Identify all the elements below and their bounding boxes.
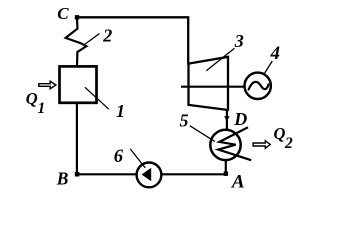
- wire: condenser outlet to node A: [225, 161, 227, 174]
- generator sine wave: [249, 82, 269, 90]
- svg-text:6: 6: [114, 147, 124, 167]
- pump 6 circle: [137, 163, 162, 188]
- wire: left pipe box to node B: [76, 103, 78, 174]
- throttle valve 2 zigzag: [66, 17, 87, 66]
- svg-text:1: 1: [116, 101, 125, 121]
- node A junction dot: [224, 172, 228, 176]
- node B junction dot: [75, 172, 80, 177]
- svg-text:3: 3: [234, 31, 244, 51]
- svg-text:Q: Q: [26, 89, 38, 108]
- svg-text:A: A: [231, 172, 245, 193]
- wire: right vertical pipe down to turbine inlet: [187, 16, 189, 64]
- svg-text:5: 5: [180, 111, 189, 131]
- leader line to label 2: [84, 34, 100, 45]
- turbine 3 trapezoid: [189, 57, 229, 110]
- condenser zigzag coil: [218, 127, 251, 160]
- leader line to label 6: [130, 149, 145, 168]
- svg-text:4: 4: [270, 43, 281, 64]
- leader line to label 3: [206, 48, 234, 71]
- condenser 5 circle: [210, 130, 240, 160]
- generator 4 circle: [245, 73, 271, 99]
- svg-text:B: B: [56, 169, 69, 189]
- flow arrowhead at D: [224, 116, 230, 121]
- leader line to label 4: [264, 61, 272, 74]
- pump triangle rotor: [142, 168, 152, 181]
- svg-text:2: 2: [284, 135, 293, 152]
- turbine-generator shaft: [181, 86, 244, 88]
- leader line to label 1: [85, 87, 109, 109]
- svg-text:D: D: [233, 109, 247, 129]
- svg-text:C: C: [57, 4, 69, 23]
- heat input block arrow Q1: [39, 81, 56, 89]
- heater box 1: [60, 66, 97, 102]
- wire: top line C to right corner: [77, 16, 188, 18]
- wire: turbine outlet pipe down to condenser: [226, 110, 228, 129]
- leader line to label 5: [190, 126, 215, 142]
- svg-text:Q: Q: [274, 124, 286, 143]
- wire: bottom line B to A: [77, 173, 226, 175]
- svg-text:2: 2: [102, 25, 112, 45]
- svg-text:1: 1: [38, 100, 46, 117]
- heat output block arrow Q2: [253, 141, 270, 149]
- node C junction dot: [75, 15, 79, 19]
